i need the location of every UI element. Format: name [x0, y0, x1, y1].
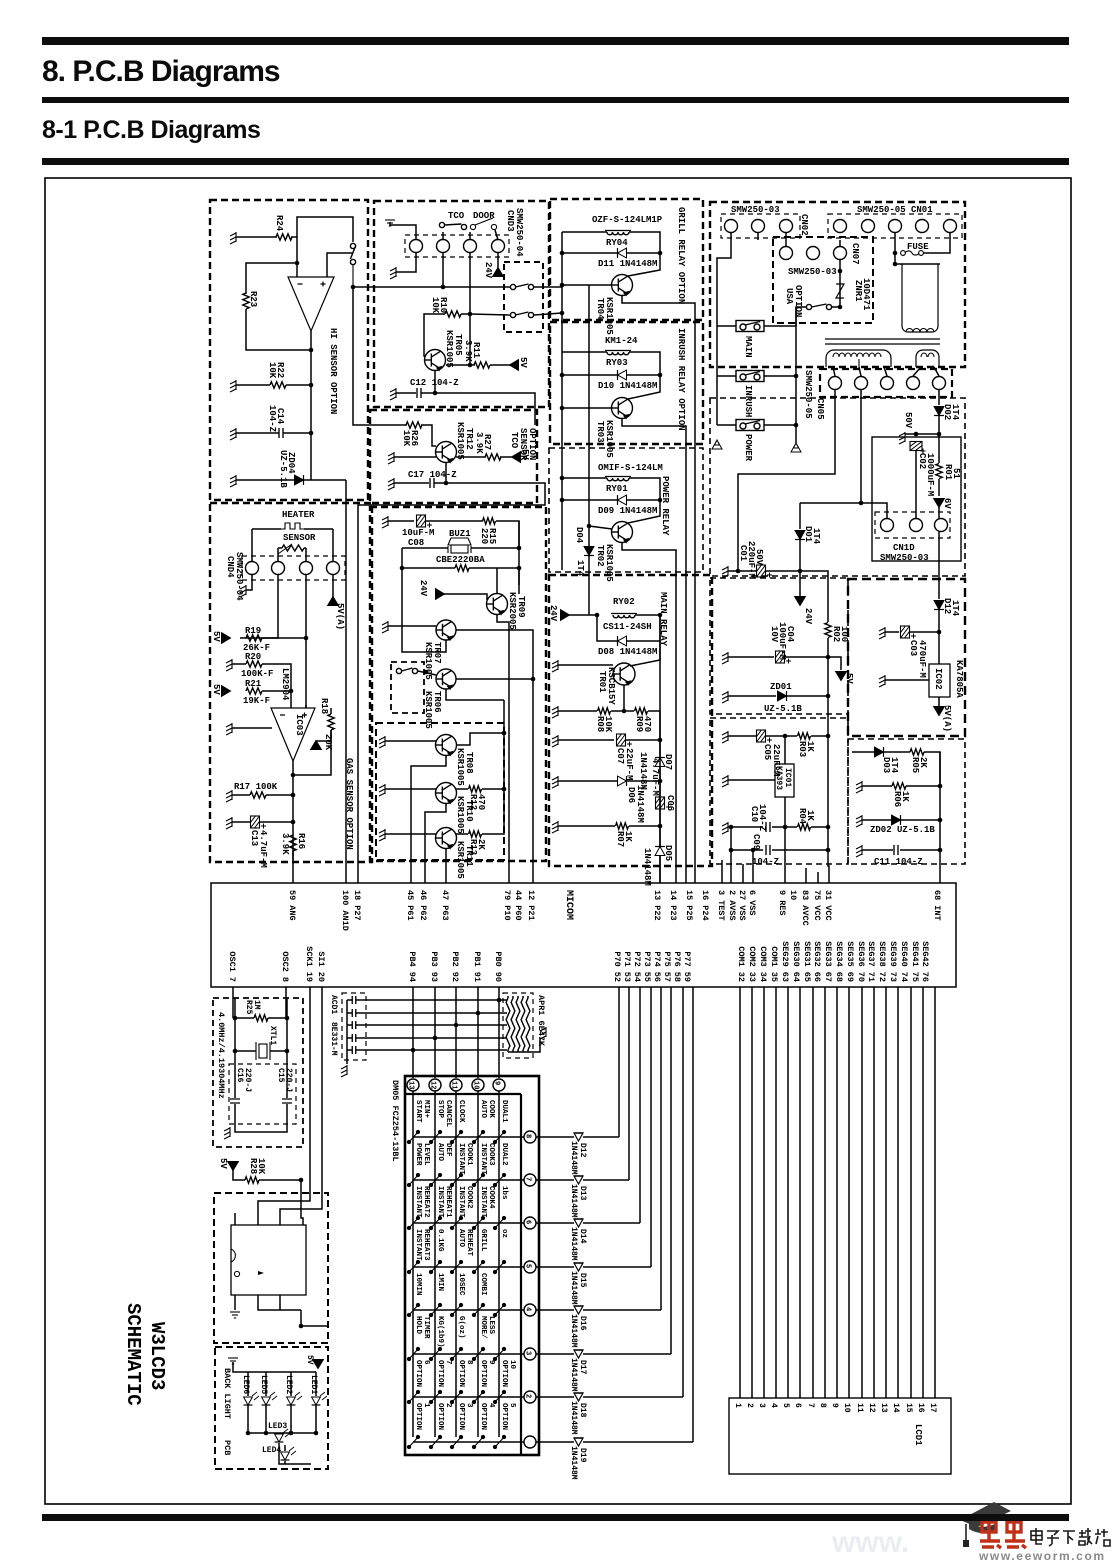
ground near R22 [230, 380, 236, 392]
watermark chong 1 [980, 1516, 1001, 1548]
APR1 bottom stub 3 [517, 1050, 519, 1052]
svg-text:C07: C07 [615, 748, 625, 764]
node R03 [826, 734, 831, 739]
svg-text:HEATER: HEATER [282, 510, 315, 520]
key switch (413,1354) [407, 1347, 419, 1360]
wire C09 to rail [772, 849, 828, 851]
node ZNR bottom [838, 305, 843, 310]
node primary top [893, 262, 898, 267]
svg-text:KSR1005: KSR1005 [604, 420, 614, 458]
node R12 [502, 787, 507, 792]
svg-text:SEG42 76: SEG42 76 [920, 941, 930, 982]
LED4 down wire [284, 1461, 286, 1464]
ground ZD02 [856, 815, 862, 827]
svg-text:CLOCK: CLOCK [457, 1100, 465, 1123]
svg-text:R25: R25 [244, 1000, 253, 1015]
capacitor C07 [617, 734, 633, 747]
wire to RY03 coil [562, 351, 607, 353]
24V supply arrow [493, 268, 504, 277]
connector CND3 pin3 [464, 240, 477, 253]
svg-text:1N4148M: 1N4148M [635, 785, 645, 823]
LCD wire pin 4 [775, 987, 777, 1398]
wire R13 to rail [482, 830, 504, 834]
D12 down [938, 610, 940, 664]
coil to diode wire [629, 478, 660, 500]
connector CN07 pin3 [834, 247, 847, 260]
svg-text:3 TEST: 3 TEST [716, 890, 726, 921]
svg-text:10: 10 [842, 1403, 851, 1413]
svg-text:PB4 94: PB4 94 [407, 951, 417, 982]
connector CND4 pin3 [300, 562, 313, 575]
D01 down [799, 540, 801, 596]
TR07 collector to P21 [456, 630, 533, 883]
wire to D11 [562, 252, 617, 254]
wire to R03 [785, 735, 797, 737]
key switch (499,1137) [493, 1130, 505, 1143]
wire C05 to node [766, 735, 785, 737]
matrix column wire x435 [434, 1091, 436, 1437]
capacitor C14 [279, 428, 283, 438]
relay contact INRUSH [736, 371, 764, 382]
svg-text:COOK2: COOK2 [465, 1186, 473, 1209]
wire node to TR02 collector [628, 500, 660, 523]
node C12 [433, 391, 438, 396]
APR1 top stub 3 [517, 996, 519, 998]
svg-text:TR02: TR02 [595, 545, 605, 567]
wire R10 to node [461, 313, 470, 315]
svg-text:3: 3 [757, 1403, 766, 1408]
TR03 emitter to MICOM [622, 418, 686, 883]
svg-text:2K: 2K [918, 757, 928, 768]
transistor TR12 [436, 442, 457, 463]
node POWER [794, 423, 799, 428]
IC04 notch [231, 1249, 235, 1262]
key switch (413,1397) [407, 1390, 419, 1403]
resistor R22 [270, 382, 286, 388]
wire D06 to rail [627, 780, 660, 782]
wire R22 to bus [286, 384, 311, 386]
node INRUSH [794, 374, 799, 379]
ground C10 [722, 822, 728, 834]
wire R03 to rail [811, 735, 828, 737]
svg-text:6: 6 [524, 1220, 532, 1224]
connector CN05 pin3 [881, 377, 894, 390]
APR1 dashed box [503, 993, 533, 1058]
6V arrow [934, 499, 945, 508]
resistor R08 [598, 708, 611, 714]
ground C08 [382, 516, 388, 528]
svg-text:9: 9 [493, 1081, 501, 1085]
wire to op-amp - input [290, 691, 292, 708]
INRUSH RELAY OPTION dashed box [550, 322, 703, 444]
diode D18 [574, 1393, 583, 1401]
connector CN02 pin1 [725, 220, 738, 233]
wire gnd to R24 [236, 236, 277, 238]
svg-text:R27: R27 [482, 434, 492, 450]
svg-text:C04: C04 [785, 626, 795, 643]
svg-text:KSR1005: KSR1005 [455, 796, 465, 834]
5V to R28 [233, 1170, 245, 1180]
key return wire to y1310 [660, 987, 662, 1310]
transistor TR08 [436, 735, 457, 756]
svg-text:CN05: CN05 [815, 398, 825, 420]
APR1 top stub 4 [522, 996, 524, 998]
IC04 bottom pin1 [234, 1295, 236, 1310]
wire gnd to C11 [862, 849, 893, 851]
power input dashed box [710, 202, 965, 367]
svg-text:RY01: RY01 [606, 484, 628, 494]
ground R17 [226, 790, 232, 802]
node D10 left [560, 373, 565, 378]
ACD1 tap 4 [347, 1037, 352, 1039]
wire C12 row right [435, 393, 535, 425]
svg-text:220-J: 220-J [243, 1068, 252, 1092]
matrix pin circle 6 [524, 1217, 536, 1229]
node C13 [291, 820, 296, 825]
node grill bottom [560, 311, 565, 316]
svg-text:oz: oz [500, 1229, 508, 1238]
transistor TR07 [436, 620, 456, 640]
svg-text:8: 8 [524, 1134, 532, 1138]
svg-text:50V: 50V [754, 549, 764, 566]
svg-text:BACK LIGHT: BACK LIGHT [222, 1368, 232, 1419]
svg-text:REHEAT2: REHEAT2 [422, 1186, 430, 1218]
osc left rail [234, 998, 236, 1098]
resistor R16 [290, 835, 296, 851]
svg-text:ACD1: ACD1 [329, 995, 338, 1014]
LCD wire pin 11 [861, 987, 863, 1398]
key matrix inner frame line [405, 1094, 521, 1455]
svg-text:8: 8 [818, 1403, 827, 1408]
5V supply arrow TCO [512, 452, 521, 463]
array supply rail [503, 700, 505, 830]
svg-text:UZ-5.1B: UZ-5.1B [764, 704, 802, 714]
svg-text:470: 470 [476, 794, 486, 810]
ground C07 [552, 735, 558, 747]
LED LED1 [312, 1397, 321, 1405]
LCD module LCD1 [729, 1398, 951, 1474]
wire D10 right [627, 374, 660, 376]
wire rail to TR02 base [589, 526, 612, 529]
plus input stub [305, 705, 307, 708]
APR1 top stub 1 [507, 996, 509, 998]
TR08 collector wire [456, 733, 504, 745]
wire R05 to rail [924, 752, 940, 786]
svg-text:TR01: TR01 [597, 671, 607, 693]
wire R12 to rail [482, 788, 504, 790]
svg-text:7: 7 [806, 1403, 815, 1408]
svg-text:D06: D06 [626, 787, 636, 803]
CN1D-3 down to D12 [938, 532, 940, 599]
relay coil RY02 [611, 614, 637, 618]
svg-text:5V: 5V [218, 1158, 228, 1169]
svg-text:USA: USA [784, 288, 794, 305]
heater right wire [304, 528, 333, 530]
TR06 emitter wire [446, 689, 504, 700]
TR10 collector to R12 [456, 788, 468, 790]
IC04 pin stub [234, 1213, 236, 1225]
resistor R11 [474, 362, 490, 368]
svg-text:SEG41 75: SEG41 75 [910, 941, 920, 982]
svg-text:KA393: KA393 [774, 766, 783, 790]
diode D01 [795, 531, 805, 540]
APR1 top stub 5 [527, 996, 529, 998]
svg-text:KSCB15Y: KSCB15Y [606, 667, 616, 705]
resistor R04 [798, 824, 811, 830]
capacitor C11 [894, 845, 898, 855]
resistor R06 [892, 783, 906, 789]
key switch (456,1267) [450, 1260, 462, 1273]
interlock dashed box [504, 262, 543, 332]
node C10 left [729, 825, 734, 830]
node jumper [424, 670, 429, 675]
svg-text:KA7805A: KA7805A [954, 660, 964, 698]
svg-text:D13: D13 [578, 1186, 587, 1201]
key return wire to y1267 [650, 987, 652, 1267]
svg-text:XTL1: XTL1 [268, 1026, 277, 1045]
diode D10 [618, 370, 627, 380]
diode D03 [875, 747, 884, 757]
svg-text:4.0MHz/4.19304MHz: 4.0MHz/4.19304MHz [216, 1012, 226, 1099]
wire to R04 [785, 826, 797, 828]
svg-text:KM1-24: KM1-24 [605, 336, 638, 346]
output bus down [310, 350, 312, 480]
resistor R19 [246, 635, 262, 641]
resistor R03 [798, 733, 811, 739]
key switch (413,1310) [407, 1303, 419, 1316]
interlock contact 2 [510, 312, 533, 318]
svg-text:OZF-S-124LM1P: OZF-S-124LM1P [592, 215, 663, 225]
stub AVCC [805, 868, 807, 883]
key return wire to y1354 [670, 987, 672, 1354]
svg-text:24V: 24V [548, 605, 558, 622]
ground near C12 [390, 388, 396, 400]
svg-text:DM05 FCZ254-13BL: DM05 FCZ254-13BL [390, 1080, 400, 1162]
key return wire to y1442 [692, 987, 694, 1442]
diode D07 [655, 758, 665, 767]
matrix pin circle 11 [450, 1079, 462, 1091]
CN02-2 stub [757, 232, 759, 240]
transistor TR02 [612, 522, 633, 543]
matrix pin circle 5 [524, 1261, 536, 1273]
node vss [751, 848, 756, 853]
svg-text:C14: C14 [275, 408, 285, 425]
arrow at op-amp out [311, 741, 322, 750]
watermark cjk 4 [1079, 1528, 1092, 1545]
transistor TR10 [436, 783, 457, 804]
matrix row wire y1354 [413, 1353, 524, 1355]
wire to POWER [717, 424, 736, 426]
key scan wire PB3 [434, 987, 436, 1078]
svg-text:R17 100K: R17 100K [234, 782, 278, 792]
svg-text:CN02: CN02 [799, 214, 809, 236]
svg-text:P75 57: P75 57 [662, 951, 672, 982]
LCD wire pin 13 [885, 987, 887, 1398]
node D06 [658, 779, 663, 784]
rail through D07 [659, 740, 661, 883]
svg-text:C13: C13 [249, 830, 259, 846]
svg-text:10K: 10K [256, 1158, 266, 1175]
key switch (435,1267) [429, 1260, 441, 1273]
svg-text:D11 1N4148M: D11 1N4148M [598, 259, 657, 269]
svg-text:2: 2 [444, 1403, 452, 1408]
svg-text:P76 58: P76 58 [672, 951, 682, 982]
svg-text:D12: D12 [578, 1143, 587, 1158]
connector CN1D pin3 [935, 519, 948, 532]
LED5 arrows [270, 1392, 277, 1400]
node R07 [658, 824, 663, 829]
key switch (413,1442) [407, 1435, 419, 1448]
relay coil RY03 [605, 351, 631, 355]
svg-text:REHEAT1: REHEAT1 [444, 1186, 452, 1218]
wire gnd to C14 [236, 432, 279, 434]
node R17 [291, 793, 296, 798]
svg-text:R11: R11 [471, 342, 481, 359]
svg-text:GRILL: GRILL [479, 1229, 487, 1252]
wire heater to pin1 [251, 529, 253, 561]
ground R07 [552, 821, 558, 833]
vertical rail x589 [588, 285, 590, 547]
svg-text:18 P27: 18 P27 [352, 890, 362, 921]
node D09 right [658, 498, 663, 503]
node R10 right [468, 312, 473, 317]
node C02 top [914, 432, 919, 437]
C15/C16 dashed box [229, 1064, 296, 1124]
ground C02 [899, 432, 905, 444]
svg-text:KSR1005: KSR1005 [455, 841, 465, 879]
svg-text:50V: 50V [903, 412, 913, 429]
array capacitor ACD1-3 [352, 1021, 356, 1029]
svg-text:TR12: TR12 [464, 428, 474, 450]
svg-text:9 RES: 9 RES [777, 890, 787, 916]
MAIN to bus [764, 325, 796, 327]
wire R09 right [648, 711, 660, 740]
svg-text:AUTO: AUTO [479, 1100, 487, 1119]
key switch (456,1180) [450, 1173, 462, 1186]
ground TR08 [379, 736, 385, 748]
wire to D01 branch [800, 502, 861, 504]
wire pin3 down [469, 253, 471, 365]
svg-text:D16: D16 [578, 1316, 587, 1331]
svg-text:COOK1: COOK1 [465, 1143, 473, 1166]
op-amp output down [292, 761, 294, 860]
node LED5 [264, 1431, 269, 1436]
svg-text:TR07: TR07 [432, 642, 442, 664]
matrix row wire y1137 [413, 1136, 524, 1138]
pin2 wire down [240, 575, 278, 638]
svg-text:DUAL2: DUAL2 [500, 1143, 508, 1166]
svg-text:12: 12 [867, 1403, 876, 1413]
wire op-amp + input [327, 253, 353, 277]
wire R06 to rail [906, 785, 940, 787]
svg-text:TR08: TR08 [464, 752, 474, 774]
matrix pin circle 13 [407, 1079, 419, 1091]
wire sensor to pin3 [305, 548, 307, 561]
R01 down [938, 479, 940, 496]
svg-text:SMW250-04: SMW250-04 [234, 552, 244, 601]
svg-text:C15: C15 [276, 1068, 285, 1083]
transistor TR05 [425, 350, 446, 371]
connector CND4 pin1 [246, 562, 259, 575]
svg-text:GRILL RELAY OPTION: GRILL RELAY OPTION [676, 207, 686, 304]
svg-text:R23: R23 [248, 291, 258, 307]
connector CND3 pin4 [492, 240, 505, 253]
wire gnd to TR10 [385, 788, 436, 790]
svg-text:47 P63: 47 P63 [440, 890, 450, 921]
svg-text:1T4: 1T4 [889, 757, 899, 774]
OSC1 wire [232, 987, 234, 1018]
array capacitor ACD1-1 [352, 996, 356, 1004]
key switch (478,1354) [472, 1347, 484, 1360]
resistor R07 [616, 823, 629, 829]
pin4 to 5V(A) [332, 575, 334, 597]
ground backlight [228, 1358, 238, 1364]
wire to D10 [562, 374, 617, 376]
switch stub [352, 264, 354, 285]
R28 node down to IC04 [301, 1180, 303, 1225]
svg-text:104-Z: 104-Z [752, 857, 779, 867]
svg-text:P74 56: P74 56 [652, 951, 662, 982]
LCD wire pin 9 [836, 987, 838, 1398]
svg-text:POWER: POWER [414, 1143, 422, 1166]
matrix pin circle nc [524, 1436, 536, 1448]
POWER to bus [764, 424, 796, 426]
wire gnd to R17 [232, 794, 250, 796]
node op-amp output [309, 348, 314, 353]
array capacitor ACD1-5 [352, 1046, 356, 1054]
diode D14 [574, 1219, 583, 1227]
svg-text:D07: D07 [663, 754, 673, 770]
node XTL right [285, 1049, 290, 1054]
svg-text:TR06: TR06 [432, 691, 442, 713]
svg-text:INSTANT: INSTANT [414, 1186, 422, 1218]
svg-text:14: 14 [891, 1403, 900, 1413]
transistor TR09 [487, 594, 508, 615]
sec2 to CN05-4 [913, 367, 921, 376]
svg-text:ZD01: ZD01 [770, 682, 792, 692]
wire to D01 [799, 503, 801, 529]
svg-text:1bs: 1bs [500, 1186, 508, 1200]
svg-text:SEG31 65: SEG31 65 [802, 941, 812, 982]
svg-text:PCB: PCB [222, 1440, 232, 1455]
svg-text:SEG32 66: SEG32 66 [812, 941, 822, 982]
wire gnd to TR12 [394, 456, 436, 458]
capacitor C16 [230, 1099, 240, 1103]
connector CN05 pin5 [933, 377, 946, 390]
ground IC02 [879, 675, 885, 687]
ground op-amp [226, 723, 232, 735]
wire to LED6 [247, 1372, 249, 1396]
svg-text:PB3 93: PB3 93 [429, 951, 439, 982]
stub AVSS [730, 850, 732, 883]
LED LED3 [275, 1434, 284, 1442]
key matrix outer frame [405, 1076, 539, 1455]
key switch (499,1180) [493, 1173, 505, 1186]
svg-text:SEG38 72: SEG38 72 [877, 941, 887, 982]
svg-text:COOK4: COOK4 [487, 1186, 495, 1209]
svg-text:LCD1: LCD1 [913, 1424, 923, 1446]
svg-text:1000uF-M: 1000uF-M [925, 453, 935, 496]
wire gnd to C07 [558, 739, 614, 741]
CN07 pin3 down [839, 260, 841, 307]
wire HI row down to R26 [353, 287, 407, 425]
resistor R20 [246, 661, 262, 667]
node C11 [938, 848, 943, 853]
svg-text:5V: 5V [305, 1355, 314, 1365]
transformer T1 secondary 1 [826, 350, 891, 367]
R28 to node [259, 1179, 301, 1181]
svg-text:10: 10 [472, 1081, 480, 1089]
